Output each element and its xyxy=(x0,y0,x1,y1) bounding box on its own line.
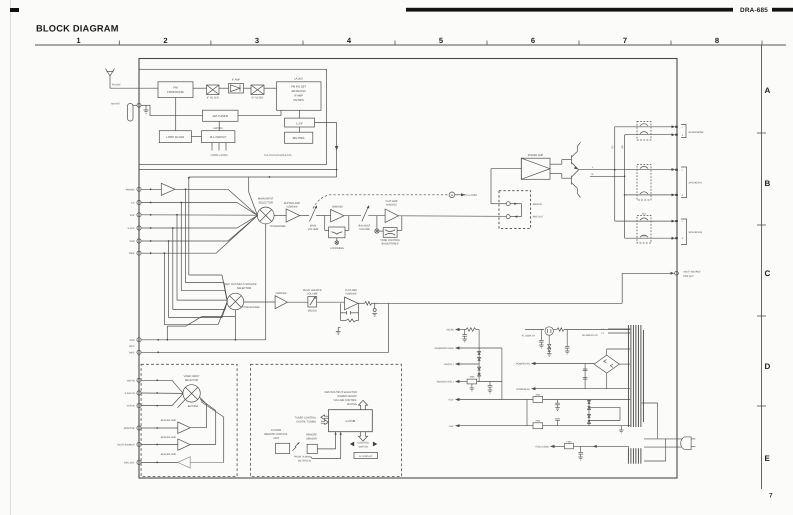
svg-text:TAPE: TAPE xyxy=(128,351,134,354)
svg-text:MONITOR: MONITOR xyxy=(124,427,135,430)
svg-text:3: 3 xyxy=(255,36,259,45)
svg-text:PHONO: PHONO xyxy=(126,188,135,191)
svg-text:M: M xyxy=(451,194,453,197)
svg-text:F2: F2 xyxy=(602,332,605,335)
svg-text:MAIN INPUT: MAIN INPUT xyxy=(258,197,274,200)
svg-text:TUNER CONTROL: TUNER CONTROL xyxy=(295,416,317,419)
svg-text:FROM u-COM: FROM u-COM xyxy=(211,154,228,157)
svg-text:+15V: +15V xyxy=(448,399,454,402)
svg-text:POWER(+B): POWER(+B) xyxy=(516,363,530,366)
svg-text:u-COM: u-COM xyxy=(346,419,356,423)
svg-text:VOLUME: VOLUME xyxy=(359,228,370,231)
svg-text:L: L xyxy=(682,126,684,129)
svg-text:V.AUX: V.AUX xyxy=(128,227,135,230)
svg-text:SWITCH: SWITCH xyxy=(358,445,368,448)
svg-text:IF FILTER: IF FILTER xyxy=(207,97,219,100)
svg-text:CD: CD xyxy=(131,202,135,205)
svg-text:FM MPX: FM MPX xyxy=(293,99,304,102)
svg-text:R: R xyxy=(682,134,684,137)
svg-text:VCR IN: VCR IN xyxy=(127,405,135,408)
svg-text:LA1837: LA1837 xyxy=(294,77,304,80)
svg-text:6: 6 xyxy=(531,36,535,45)
svg-text:TAPE: TAPE xyxy=(128,252,134,255)
svg-text:+5V(FRONT END): +5V(FRONT END) xyxy=(434,347,454,350)
svg-text:L: L xyxy=(592,166,594,169)
svg-text:VOLUME: VOLUME xyxy=(308,228,319,231)
svg-text:L: L xyxy=(682,220,684,223)
svg-text:IF FILTER: IF FILTER xyxy=(252,97,264,100)
svg-text:E: E xyxy=(765,454,771,463)
svg-text:-15V: -15V xyxy=(448,425,453,428)
svg-text:VCR: VCR xyxy=(129,339,134,342)
svg-text:DRA-685: DRA-685 xyxy=(740,7,768,14)
svg-text:VIDEO INPUT: VIDEO INPUT xyxy=(184,375,200,378)
svg-text:+5V(PLL): +5V(PLL) xyxy=(443,363,453,366)
svg-text:TL1,C2,C3,C4,C14,C15: TL1,C2,C3,C4,C14,C15 xyxy=(264,154,292,157)
svg-text:NJM2068: NJM2068 xyxy=(346,292,357,295)
svg-text:PRE OUT: PRE OUT xyxy=(533,216,544,219)
svg-text:RE2: RE2 xyxy=(642,212,647,215)
svg-text:FILAMENT AC: FILAMENT AC xyxy=(582,334,598,337)
svg-text:TC9164F/BEF: TC9164F/BEF xyxy=(270,225,287,228)
svg-text:BASS/TREBLE: BASS/TREBLE xyxy=(382,242,399,245)
svg-text:7805: 7805 xyxy=(469,376,475,379)
svg-text:VOLUME CONTROL: VOLUME CONTROL xyxy=(334,399,358,402)
svg-text:REC OUT: REC OUT xyxy=(124,461,135,464)
svg-text:(R): (R) xyxy=(621,145,624,148)
svg-text:AM TUNER: AM TUNER xyxy=(212,114,228,118)
svg-text:M62429: M62429 xyxy=(308,309,318,312)
svg-text:+B(VIDEO SEL): +B(VIDEO SEL) xyxy=(436,381,453,384)
svg-text:PLL CIRCUIT: PLL CIRCUIT xyxy=(210,135,227,139)
svg-text:5: 5 xyxy=(439,36,444,45)
svg-text:POWER(-B): POWER(-B) xyxy=(516,388,529,391)
svg-text:NJM2068: NJM2068 xyxy=(332,205,343,208)
svg-text:SYSTEM: SYSTEM xyxy=(271,429,281,432)
svg-text:POWER ON/OFF: POWER ON/OFF xyxy=(337,395,357,398)
svg-text:7805: 7805 xyxy=(535,420,541,423)
svg-text:POWER AMP: POWER AMP xyxy=(528,154,544,157)
svg-text:VOLUME: VOLUME xyxy=(307,292,318,295)
svg-text:1: 1 xyxy=(76,36,81,45)
svg-text:4: 4 xyxy=(347,36,352,45)
svg-text:LOUDNESS: LOUDNESS xyxy=(330,247,344,250)
svg-text:BA7655A: BA7655A xyxy=(188,405,199,408)
svg-text:R: R xyxy=(682,194,684,197)
svg-text:SPEAKER A: SPEAKER A xyxy=(689,182,703,185)
svg-text:FM: FM xyxy=(173,86,178,90)
svg-text:2: 2 xyxy=(163,36,167,45)
svg-text:DIGITAL TUNING: DIGITAL TUNING xyxy=(297,420,317,423)
svg-text:TO u-COM: TO u-COM xyxy=(464,194,477,197)
svg-text:PRE OUT: PRE OUT xyxy=(684,275,695,278)
svg-text:TC9163AF/BEF: TC9163AF/BEF xyxy=(242,306,261,309)
svg-text:8: 8 xyxy=(715,36,719,45)
svg-text:VCR: VCR xyxy=(129,240,134,243)
svg-text:+B(+B): +B(+B) xyxy=(446,329,454,332)
svg-text:BLOCK DIAGRAM: BLOCK DIAGRAM xyxy=(36,24,119,34)
svg-text:REMOTE: REMOTE xyxy=(306,433,317,436)
svg-text:REC: REC xyxy=(129,345,134,348)
svg-text:R: R xyxy=(682,237,684,240)
svg-text:(L): (L) xyxy=(611,145,614,148)
svg-text:IF AMP: IF AMP xyxy=(232,79,241,82)
svg-text:AM ANT: AM ANT xyxy=(111,102,120,105)
svg-text:INPUT/OUTPUT SELECTOR: INPUT/OUTPUT SELECTOR xyxy=(324,391,357,394)
svg-text:REMOTE CONTROL: REMOTE CONTROL xyxy=(264,433,288,436)
svg-text:FL DISPLAY: FL DISPLAY xyxy=(359,455,373,458)
svg-text:BUFFER AMP: BUFFER AMP xyxy=(161,453,177,456)
svg-text:7: 7 xyxy=(623,36,627,45)
svg-text:MULTI SOURCE: MULTI SOURCE xyxy=(117,444,135,447)
svg-text:FRONTEND: FRONTEND xyxy=(167,90,184,94)
svg-text:LOOP FILTER: LOOP FILTER xyxy=(166,135,184,139)
svg-text:C: C xyxy=(765,269,771,278)
svg-text:NJM2062: NJM2062 xyxy=(386,203,397,206)
svg-text:7: 7 xyxy=(769,493,773,500)
svg-text:MULTI SOURCE: MULTI SOURCE xyxy=(684,270,702,273)
svg-text:LM7001: LM7001 xyxy=(213,127,223,130)
svg-text:A: A xyxy=(765,86,771,95)
svg-text:METERS IN: METERS IN xyxy=(298,459,311,462)
svg-text:FM IF& DET: FM IF& DET xyxy=(291,85,306,88)
svg-text:REC OUT/MULTI SOURCE: REC OUT/MULTI SOURCE xyxy=(225,283,257,286)
svg-text:MUTING: MUTING xyxy=(347,403,357,406)
svg-text:MUTING: MUTING xyxy=(293,136,305,140)
svg-text:IF AMP: IF AMP xyxy=(294,94,303,97)
svg-text:VDP: VDP xyxy=(130,214,135,217)
svg-text:7805: 7805 xyxy=(535,393,541,396)
svg-text:L.P.F: L.P.F xyxy=(296,121,303,125)
svg-text:F005: F005 xyxy=(567,440,573,443)
svg-text:FM ANT: FM ANT xyxy=(112,84,121,87)
svg-text:FROM TA MAIN: FROM TA MAIN xyxy=(294,455,311,458)
svg-text:B: B xyxy=(765,179,771,188)
svg-text:SELECTOR: SELECTOR xyxy=(258,201,272,204)
svg-text:D: D xyxy=(765,362,771,371)
svg-text:CONTROL: CONTROL xyxy=(357,442,369,445)
svg-text:+5V(u-COM): +5V(u-COM) xyxy=(535,446,549,449)
svg-text:SELECTOR: SELECTOR xyxy=(237,287,251,290)
svg-text:S.AUX IN: S.AUX IN xyxy=(125,392,135,395)
svg-text:FL DISPLAY: FL DISPLAY xyxy=(522,334,536,337)
svg-text:HEADPHONE: HEADPHONE xyxy=(689,131,705,134)
svg-text:MAIN IN: MAIN IN xyxy=(533,203,542,206)
svg-text:BUFFER AMP: BUFFER AMP xyxy=(161,419,177,422)
svg-text:L: L xyxy=(682,169,684,172)
svg-text:NJM2068: NJM2068 xyxy=(276,292,287,295)
svg-text:SELECTOR: SELECTOR xyxy=(185,379,199,382)
svg-text:AM RF,OSC: AM RF,OSC xyxy=(291,90,306,93)
svg-text:R: R xyxy=(592,173,594,176)
svg-text:UNIT: UNIT xyxy=(273,437,279,440)
svg-text:SENSOR: SENSOR xyxy=(306,437,317,440)
svg-text:VDP IN: VDP IN xyxy=(127,379,135,382)
svg-text:BUFFER AMP: BUFFER AMP xyxy=(161,436,177,439)
svg-text:NJM2068: NJM2068 xyxy=(287,205,298,208)
svg-text:SPEAKER B: SPEAKER B xyxy=(689,231,703,234)
